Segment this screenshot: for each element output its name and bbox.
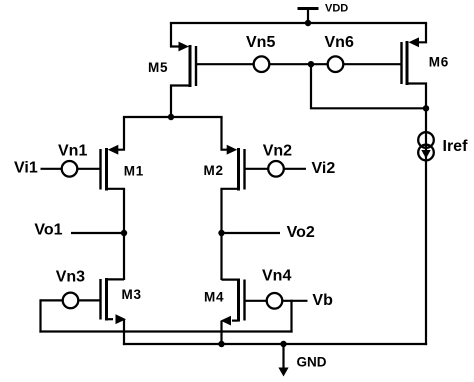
- junction M6 drain dot: [423, 105, 429, 111]
- transistor M2: [204, 117, 245, 191]
- svg-text:M1: M1: [124, 163, 144, 178]
- wire Vn5 to Vn6 through gates junction: [255, 63, 336, 65]
- noise source Vn1: [58, 143, 87, 177]
- svg-text:Vo2: Vo2: [287, 224, 315, 241]
- wire Vi1 to M1 gate: [41, 168, 101, 170]
- svg-text:GND: GND: [297, 355, 327, 370]
- noise source Vn2: [263, 143, 292, 177]
- wire Vo2 stub: [222, 232, 281, 234]
- wire Vn3 to M3 gate: [41, 299, 101, 301]
- wire M5 gate to Vn5: [196, 63, 255, 65]
- svg-text:Vn4: Vn4: [262, 268, 291, 285]
- svg-text:M6: M6: [429, 54, 449, 69]
- noise source Vn6: [325, 34, 354, 72]
- wire tail bus: [123, 116, 223, 118]
- wire VDD top rail: [170, 22, 427, 24]
- transistor M6: [402, 23, 450, 108]
- wire bias bus horizontal: [39, 330, 292, 332]
- svg-text:Vb: Vb: [312, 292, 333, 309]
- transistor M5: [148, 23, 196, 117]
- svg-text:M4: M4: [204, 290, 224, 305]
- svg-text:Vn2: Vn2: [263, 143, 292, 160]
- wire ground bus: [123, 343, 427, 345]
- VDD power symbol: [298, 3, 349, 24]
- junction Vo2 dot: [218, 230, 224, 236]
- wire Vi2 to M2 gate: [245, 168, 307, 170]
- wire M6 drain to Iref to ground bus: [425, 108, 427, 345]
- noise source Vn5: [246, 34, 275, 72]
- junction gates node dot: [308, 61, 314, 67]
- wire Vn3 left wrap vertical: [39, 299, 41, 332]
- svg-text:Vn3: Vn3: [56, 269, 85, 286]
- svg-text:Iref: Iref: [443, 138, 469, 155]
- wire M4 source vertical: [220, 321, 222, 344]
- svg-text:M5: M5: [148, 60, 168, 75]
- junction M4 source dot: [218, 341, 224, 347]
- svg-text:M3: M3: [122, 287, 142, 302]
- svg-text:Vn1: Vn1: [58, 143, 87, 160]
- svg-text:Vn5: Vn5: [246, 34, 275, 51]
- svg-text:Vo1: Vo1: [34, 221, 62, 238]
- noise source Vn3: [56, 269, 85, 309]
- transistor M1: [101, 117, 145, 191]
- wire Vb vertical: [290, 300, 292, 333]
- wire M3 source vertical: [123, 319, 125, 345]
- transistor M3: [101, 278, 142, 324]
- current source Iref: [418, 132, 468, 160]
- wire Vn6 to M6 gate: [336, 63, 402, 65]
- wire diode connection gates to M6 drain: [311, 64, 426, 108]
- junction tail node dot: [168, 114, 174, 120]
- transistor M4: [204, 279, 245, 326]
- noise source Vn4: [262, 268, 291, 309]
- wire M2 drain to M4 drain: [220, 189, 222, 280]
- wire M1 drain to M3 drain: [123, 189, 125, 280]
- svg-text:Vn6: Vn6: [325, 34, 354, 51]
- GND ground symbol: [278, 344, 326, 377]
- svg-text:Vi1: Vi1: [14, 159, 38, 176]
- junction VDD rail dot: [305, 20, 311, 26]
- svg-text:Vi2: Vi2: [312, 160, 336, 177]
- svg-text:VDD: VDD: [325, 3, 348, 15]
- svg-text:M2: M2: [204, 163, 224, 178]
- junction Vo1 dot: [121, 230, 127, 236]
- wire Vo1 stub: [71, 232, 124, 234]
- junction GND stem dot: [280, 341, 286, 347]
- wire Vn4 to M4 gate and Vb: [245, 300, 308, 302]
